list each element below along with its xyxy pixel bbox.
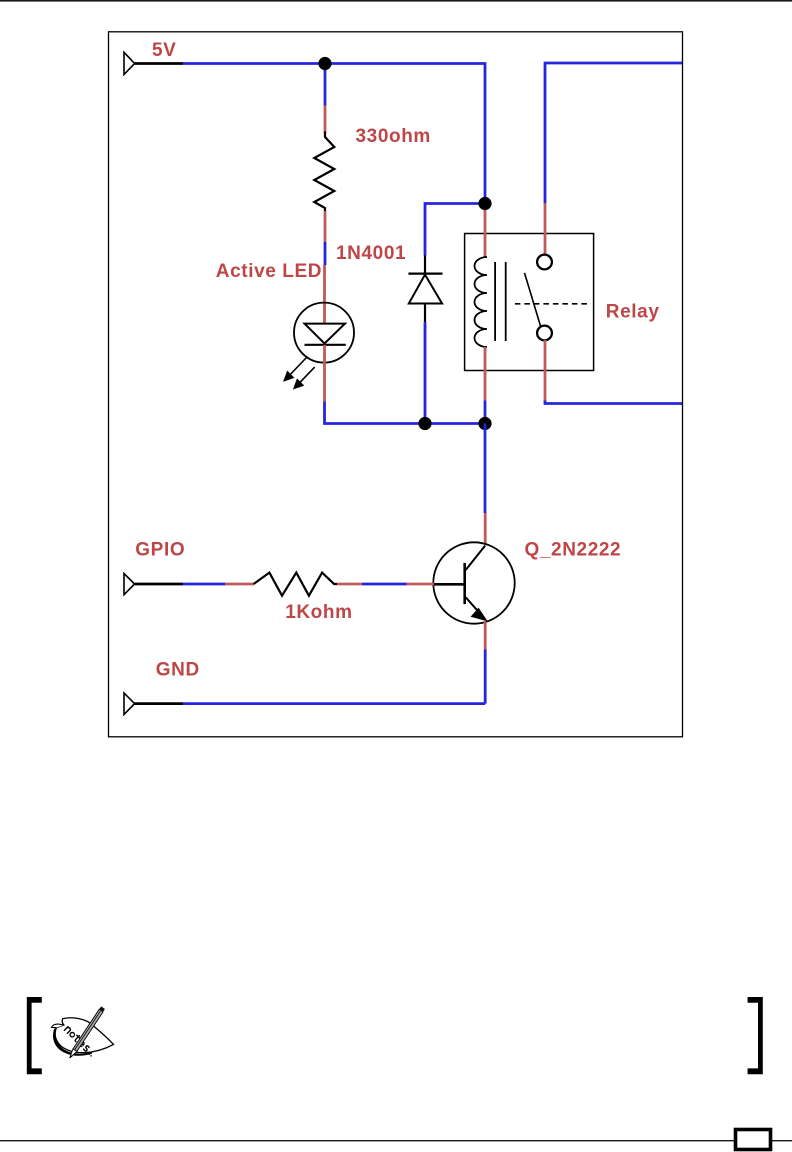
connector GND [124,693,135,715]
svg-text:330ohm: 330ohm [356,126,431,147]
relay contact top [537,255,552,270]
wire switch top (blue) [545,63,682,203]
notes icon text [64,1026,96,1057]
transistor Q_2N2222 body [433,542,514,623]
wire resistor-LED (blue) [324,242,327,265]
lead R2 right (red) [337,583,362,586]
junction dot collector net [478,417,491,430]
wire GND lead (black) [135,702,183,705]
wire GND (blue) [183,702,485,705]
notes icon paper flap [51,1024,64,1028]
wire diode top (blue) [425,204,485,256]
lead collector (red) [484,513,487,545]
resistor 1Kohm [254,573,337,596]
transistor base bar [463,563,466,604]
wire diode bottom (blue) [424,322,427,423]
wire LED bottom corner (blue) [325,402,486,424]
svg-text:Active LED: Active LED [216,261,322,282]
left margin bracket [27,997,42,1074]
svg-text:1N4001: 1N4001 [336,243,406,264]
schematic frame [109,32,683,737]
wire emitter (blue) [484,650,487,704]
resistor 330ohm [314,132,334,212]
wire coil bottom (blue) [484,401,487,424]
LED arrow 1 [284,357,307,381]
relay switch arm [525,273,541,326]
svg-text:5V: 5V [152,40,176,61]
wire resistor top (blue) [324,64,327,106]
lead base (red) [407,583,435,586]
bottom rule [0,1140,792,1141]
notes icon pencil [70,1006,105,1058]
wire GPIO (blue) [183,583,225,586]
connector J1 5V [124,52,135,74]
top rule [0,0,792,2]
LED arrow 2 [294,367,315,388]
lead diode bottom (black) [424,304,426,323]
lead LED top (red) [323,265,326,324]
page number box [736,1130,771,1150]
junction dot relay top [478,197,491,210]
notes icon paper [55,1018,113,1053]
lead resistor bottom (red) [324,211,327,242]
relay coil [475,257,488,347]
wire GPIO lead (black) [135,583,183,586]
diode 1N4001 triangle [409,275,442,304]
transistor emitter arrowhead [472,609,487,621]
lead LED bottom (red) [323,345,326,402]
transistor emitter stroke [466,597,485,618]
junction dot 5V rail [318,57,331,70]
lead switch bottom (red) [544,340,547,401]
lead emitter (red) [484,622,487,650]
notes icon swoosh [53,1028,92,1055]
svg-text:GND: GND [156,660,200,681]
wire base (blue) [362,583,407,586]
svg-text:Q_2N2222: Q_2N2222 [525,540,622,561]
svg-text:1Kohm: 1Kohm [285,602,352,623]
wire 5V rail (blue) [183,64,485,204]
connector GPIO [124,574,135,595]
wire collector (blue) [484,424,487,514]
lead switch top (red) [544,203,547,255]
wire switch bottom (blue) [545,401,682,404]
wire 5V lead (black) [135,62,183,65]
lead relay coil bottom (red) [484,347,487,401]
lead diode top (black) [424,256,426,274]
diode 1N4001 cathode bar [408,273,442,275]
transistor base lead (black) [434,583,465,586]
relay core line 2 [505,262,507,341]
lead relay coil top (red) [484,204,487,258]
relay dashed line [515,303,587,305]
svg-text:Relay: Relay [606,302,660,323]
LED triangle [305,324,346,344]
relay contact bottom [537,326,552,341]
LED body [294,303,354,363]
svg-text:GPIO: GPIO [135,540,185,561]
transistor collector stroke [466,546,486,571]
lead resistor top (red) [324,106,327,134]
lead R2 left (red) [225,583,254,586]
junction dot diode bottom [418,417,431,430]
LED cathode bar [305,344,346,346]
relay core line 1 [494,262,496,341]
relay K1 box [465,234,594,371]
right margin bracket [748,997,763,1074]
